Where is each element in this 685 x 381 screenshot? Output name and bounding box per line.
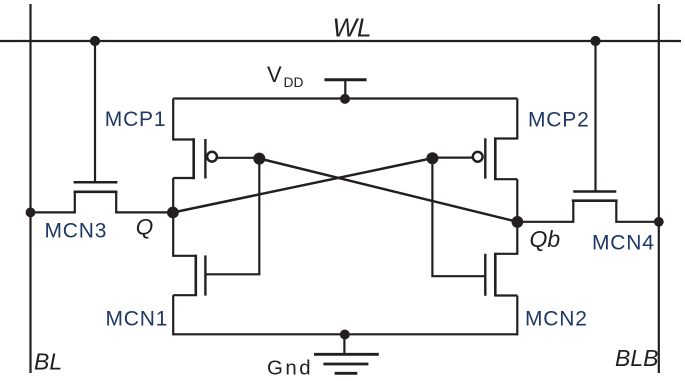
svg-text:MCN4: MCN4 <box>592 232 655 255</box>
wire BL (left bit line, vertical) <box>29 4 31 373</box>
wire: MCP1 drain down to node Q <box>172 178 174 212</box>
wire: WL junction down to MCN3 gate <box>94 41 96 181</box>
wire: right inverter rail, VDD to MCP2 source <box>516 99 518 140</box>
node: right inverter gate junction dot <box>426 152 438 164</box>
node: ground tap dot on bottom rail <box>340 330 350 340</box>
node: BLB access junction dot <box>654 217 664 227</box>
wire: MCP2 gate bubble to right gate node <box>432 157 473 159</box>
node Q (storage node dot) <box>167 207 179 219</box>
wire WL (word line, horizontal top rail) <box>0 40 681 42</box>
wire: MCN1 source down to ground rail <box>172 295 174 335</box>
wire: ground rail (bottom horizontal) <box>173 333 517 335</box>
svg-text:Gnd: Gnd <box>267 357 313 379</box>
svg-text:MCP2: MCP2 <box>528 109 590 132</box>
wire: MCP2 drain down to node Qb <box>516 179 518 222</box>
wire BLB (right bit line bar, vertical) <box>658 4 660 373</box>
transistor MCP1 (PMOS, left): channel bar, steps, gate bar, bubble <box>173 138 217 179</box>
wire: left inverter rail, VDD to MCP1 source <box>172 99 174 141</box>
svg-text:Q: Q <box>136 215 154 240</box>
transistor MCN2 (NMOS, right): channel bar, steps, gate bar <box>485 253 517 297</box>
svg-text:MCP1: MCP1 <box>105 108 167 131</box>
node: WL-MCN4 gate junction dot <box>590 36 600 46</box>
transistor MCN3 (NMOS access, left): gate bar, channel bar, source/drain steps <box>31 182 174 212</box>
transistor MCP2 (PMOS, right): channel bar, steps, gate bar, bubble <box>473 137 517 180</box>
svg-text:BLB: BLB <box>615 345 658 371</box>
ground symbol Gnd (stem and three bars) <box>314 334 379 373</box>
transistor MCN1 (NMOS, left): channel bar, steps, gate bar <box>173 255 205 297</box>
wire: cross-couple diagonal, node Q to right inverter gate node <box>173 158 433 212</box>
svg-text:MCN2: MCN2 <box>525 307 588 330</box>
node: left inverter gate junction dot <box>253 153 265 165</box>
svg-text:Qb: Qb <box>530 226 561 252</box>
svg-text:VDD: VDD <box>267 62 303 90</box>
wire: MCN2 source down to ground rail <box>516 296 518 336</box>
wire: node Q down to MCN1 drain <box>172 212 174 256</box>
wire: WL junction down to MCN4 gate <box>594 41 596 191</box>
node Qb (storage node dot) <box>512 216 524 228</box>
svg-text:MCN1: MCN1 <box>106 308 169 331</box>
wire: cross-couple diagonal, node Qb to left inverter gate node <box>259 159 517 222</box>
wire: node Qb down to MCN2 drain <box>516 222 518 255</box>
svg-text:BL: BL <box>34 349 62 375</box>
node: VDD tap dot on top rail <box>340 94 350 104</box>
svg-text:MCN3: MCN3 <box>45 220 108 243</box>
node: WL-MCN3 gate junction dot <box>90 36 100 46</box>
wire: right gate node down and to MCN2 gate <box>432 158 485 277</box>
wire: left gate node down and to MCN1 gate <box>205 158 259 274</box>
svg-text:WL: WL <box>333 13 372 43</box>
node: BL access junction dot <box>26 208 36 218</box>
transistor MCN4 (NMOS access, right): gate bar, channel bar, source/drain steps <box>517 192 659 222</box>
power VDD symbol (bar and stem) <box>324 80 366 99</box>
wire: VDD rail (top horizontal of inverter pair) <box>173 97 517 99</box>
wire: MCP1 gate bubble to left gate node <box>216 157 259 159</box>
